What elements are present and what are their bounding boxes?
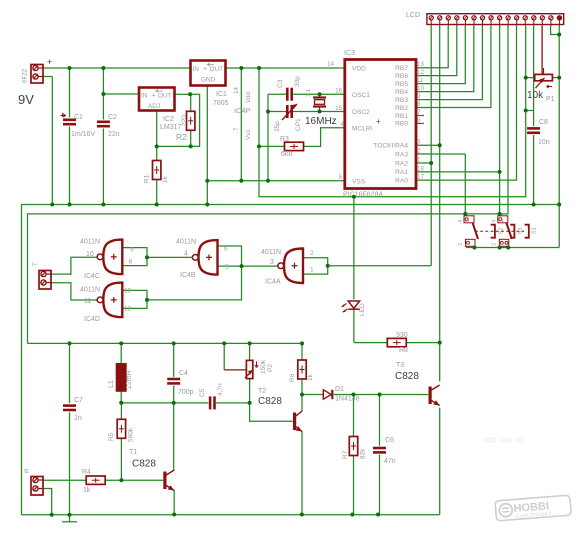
svg-text:RA1: RA1: [395, 169, 408, 176]
svg-text:17: 17: [417, 174, 424, 181]
svg-text:1k: 1k: [83, 487, 91, 494]
svg-text:P2: P2: [267, 364, 274, 372]
svg-text:1n: 1n: [74, 415, 82, 422]
svg-text:VDD: VDD: [352, 66, 366, 73]
svg-text:4011N: 4011N: [261, 249, 281, 256]
svg-text:C7: C7: [74, 397, 83, 404]
svg-text:18: 18: [417, 165, 424, 172]
svg-text:330: 330: [396, 332, 408, 339]
svg-text:1: 1: [466, 243, 472, 246]
svg-text:RB5: RB5: [395, 81, 408, 88]
svg-text:Vdd: Vdd: [245, 91, 252, 103]
svg-text:RB6: RB6: [395, 73, 408, 80]
svg-text:C1: C1: [74, 114, 83, 121]
svg-text:Vss: Vss: [245, 130, 252, 140]
svg-text:11: 11: [84, 298, 91, 305]
svg-text:1: 1: [499, 243, 505, 246]
svg-text:LCD: LCD: [406, 12, 420, 19]
svg-text:220: 220: [181, 115, 188, 126]
svg-text:1: 1: [417, 157, 421, 164]
svg-text:C6: C6: [385, 437, 394, 444]
svg-text:C828: C828: [132, 459, 156, 470]
svg-text:4: 4: [341, 121, 345, 128]
svg-text:L1: L1: [108, 380, 115, 388]
svg-text:30p: 30p: [294, 76, 301, 87]
svg-text:13: 13: [124, 288, 132, 295]
svg-text:R8: R8: [399, 347, 408, 354]
svg-text:C828: C828: [258, 396, 282, 407]
svg-text:C3: C3: [277, 79, 284, 88]
svg-text:R3: R3: [280, 136, 289, 143]
svg-text:10: 10: [86, 251, 94, 258]
svg-text:IN: IN: [193, 66, 200, 73]
svg-text:150k: 150k: [260, 359, 267, 374]
svg-text:12: 12: [417, 69, 424, 76]
svg-text:4011N: 4011N: [80, 287, 100, 294]
svg-text:4: 4: [184, 251, 188, 258]
svg-text:6k8: 6k8: [281, 151, 292, 158]
svg-text:C5: C5: [199, 388, 206, 397]
svg-text:3: 3: [270, 259, 274, 266]
svg-text:6F22: 6F22: [22, 68, 29, 83]
svg-text:C2: C2: [108, 114, 117, 121]
svg-text:14: 14: [327, 61, 334, 68]
svg-text:700p: 700p: [178, 389, 194, 396]
svg-text:560k: 560k: [128, 427, 135, 442]
svg-text:16MHz: 16MHz: [305, 116, 337, 127]
svg-text:R6: R6: [289, 373, 296, 382]
svg-text:6: 6: [224, 246, 228, 253]
svg-text:C8: C8: [539, 119, 548, 126]
svg-text:4011N: 4011N: [176, 239, 196, 246]
svg-text:7805: 7805: [213, 100, 229, 107]
svg-text:+: +: [47, 57, 52, 67]
svg-text:R: R: [24, 468, 31, 473]
svg-text:3: 3: [499, 220, 505, 223]
svg-text:X1: X1: [305, 89, 312, 97]
svg-text:5: 5: [225, 264, 229, 271]
svg-text:1: 1: [310, 267, 314, 274]
svg-text:15: 15: [335, 105, 342, 112]
svg-text:7: 7: [233, 127, 240, 131]
svg-text:TOCKI/RA4: TOCKI/RA4: [373, 143, 408, 150]
svg-text:1k: 1k: [162, 175, 169, 183]
svg-text:IC3: IC3: [344, 50, 355, 57]
svg-text:+: +: [376, 117, 381, 126]
svg-text:T2: T2: [258, 388, 266, 395]
svg-text:7: 7: [417, 109, 421, 116]
svg-text:6: 6: [417, 117, 421, 124]
svg-text:C4: C4: [179, 370, 188, 377]
svg-text:4: 4: [492, 220, 498, 223]
svg-text:2: 2: [310, 250, 314, 257]
svg-text:RA3: RA3: [395, 151, 408, 158]
svg-text:+: +: [203, 66, 207, 73]
svg-text:T3: T3: [396, 362, 404, 369]
svg-text:T1: T1: [129, 449, 137, 456]
svg-text:10k: 10k: [527, 90, 544, 101]
svg-text:RB2: RB2: [395, 105, 408, 112]
svg-text:T: T: [32, 262, 39, 266]
svg-text:8: 8: [417, 101, 421, 108]
svg-text:1k: 1k: [307, 373, 314, 381]
svg-text:82k: 82k: [360, 448, 367, 459]
svg-text:GND: GND: [201, 77, 216, 84]
svg-text:8: 8: [129, 259, 133, 266]
svg-text:CP1: CP1: [295, 118, 302, 131]
svg-text:R4: R4: [82, 469, 91, 476]
svg-text:IC4P: IC4P: [234, 106, 251, 115]
svg-text:2: 2: [492, 243, 498, 246]
svg-text:IN: IN: [141, 93, 148, 100]
svg-text:9: 9: [417, 93, 421, 100]
svg-text:C828: C828: [395, 371, 419, 382]
svg-text:RA0: RA0: [395, 177, 408, 184]
svg-text:2: 2: [417, 148, 421, 155]
svg-text:IC4C: IC4C: [84, 273, 100, 280]
svg-text:9V: 9V: [18, 92, 34, 107]
svg-text:3: 3: [465, 220, 471, 223]
svg-text:4: 4: [458, 220, 464, 223]
svg-text:IC1: IC1: [216, 91, 227, 98]
svg-text:9: 9: [130, 247, 134, 254]
svg-text:35p: 35p: [274, 121, 281, 132]
svg-text:RB3: RB3: [395, 97, 408, 104]
svg-text:RB7: RB7: [395, 65, 408, 72]
svg-text:1m/16V: 1m/16V: [71, 131, 95, 138]
svg-text:12: 12: [124, 306, 132, 313]
svg-text:P1: P1: [546, 96, 555, 103]
svg-text:PIC16F628A: PIC16F628A: [343, 192, 383, 199]
svg-text:VSS: VSS: [352, 178, 366, 185]
svg-text:OUT: OUT: [158, 93, 172, 100]
svg-text:R5: R5: [108, 432, 115, 441]
svg-text:OUT: OUT: [210, 66, 224, 73]
svg-text:22mH: 22mH: [126, 370, 133, 389]
svg-text:IC4B: IC4B: [180, 272, 196, 279]
svg-text:11: 11: [417, 77, 424, 84]
svg-text:5: 5: [339, 174, 343, 181]
svg-text:R2: R2: [176, 132, 187, 142]
svg-text:RA2: RA2: [395, 160, 408, 167]
svg-text:LED: LED: [359, 303, 366, 316]
svg-text:IC4D: IC4D: [84, 316, 100, 323]
svg-text:RB1: RB1: [395, 113, 408, 120]
svg-text:OSC2: OSC2: [352, 109, 370, 116]
svg-text:+: +: [152, 93, 156, 100]
svg-text:ADJ: ADJ: [148, 103, 160, 110]
svg-text:LM317: LM317: [160, 124, 182, 131]
svg-text:4,7n: 4,7n: [217, 383, 224, 396]
svg-text:14: 14: [233, 87, 240, 94]
svg-text:3: 3: [417, 139, 421, 146]
svg-text:2: 2: [458, 243, 464, 246]
svg-text:16: 16: [335, 88, 342, 95]
svg-text:S1: S1: [532, 227, 538, 234]
svg-text:10: 10: [417, 85, 424, 92]
svg-text:IC4A: IC4A: [265, 279, 281, 286]
svg-text:13: 13: [417, 61, 424, 68]
svg-text:4011N: 4011N: [80, 239, 100, 246]
svg-text:RB4: RB4: [395, 89, 408, 96]
svg-text:22n: 22n: [108, 131, 120, 138]
svg-text:D1: D1: [335, 386, 344, 393]
svg-text:OSC1: OSC1: [352, 92, 370, 99]
svg-text:R7: R7: [342, 450, 349, 459]
svg-text:MCLR\: MCLR\: [352, 125, 373, 132]
svg-text:10n: 10n: [538, 139, 550, 146]
svg-text:1N4148: 1N4148: [335, 396, 360, 403]
svg-text:R1: R1: [144, 174, 151, 183]
svg-text:47n: 47n: [384, 458, 396, 465]
svg-text:IC2: IC2: [163, 116, 174, 123]
svg-text:RB0: RB0: [395, 121, 408, 128]
